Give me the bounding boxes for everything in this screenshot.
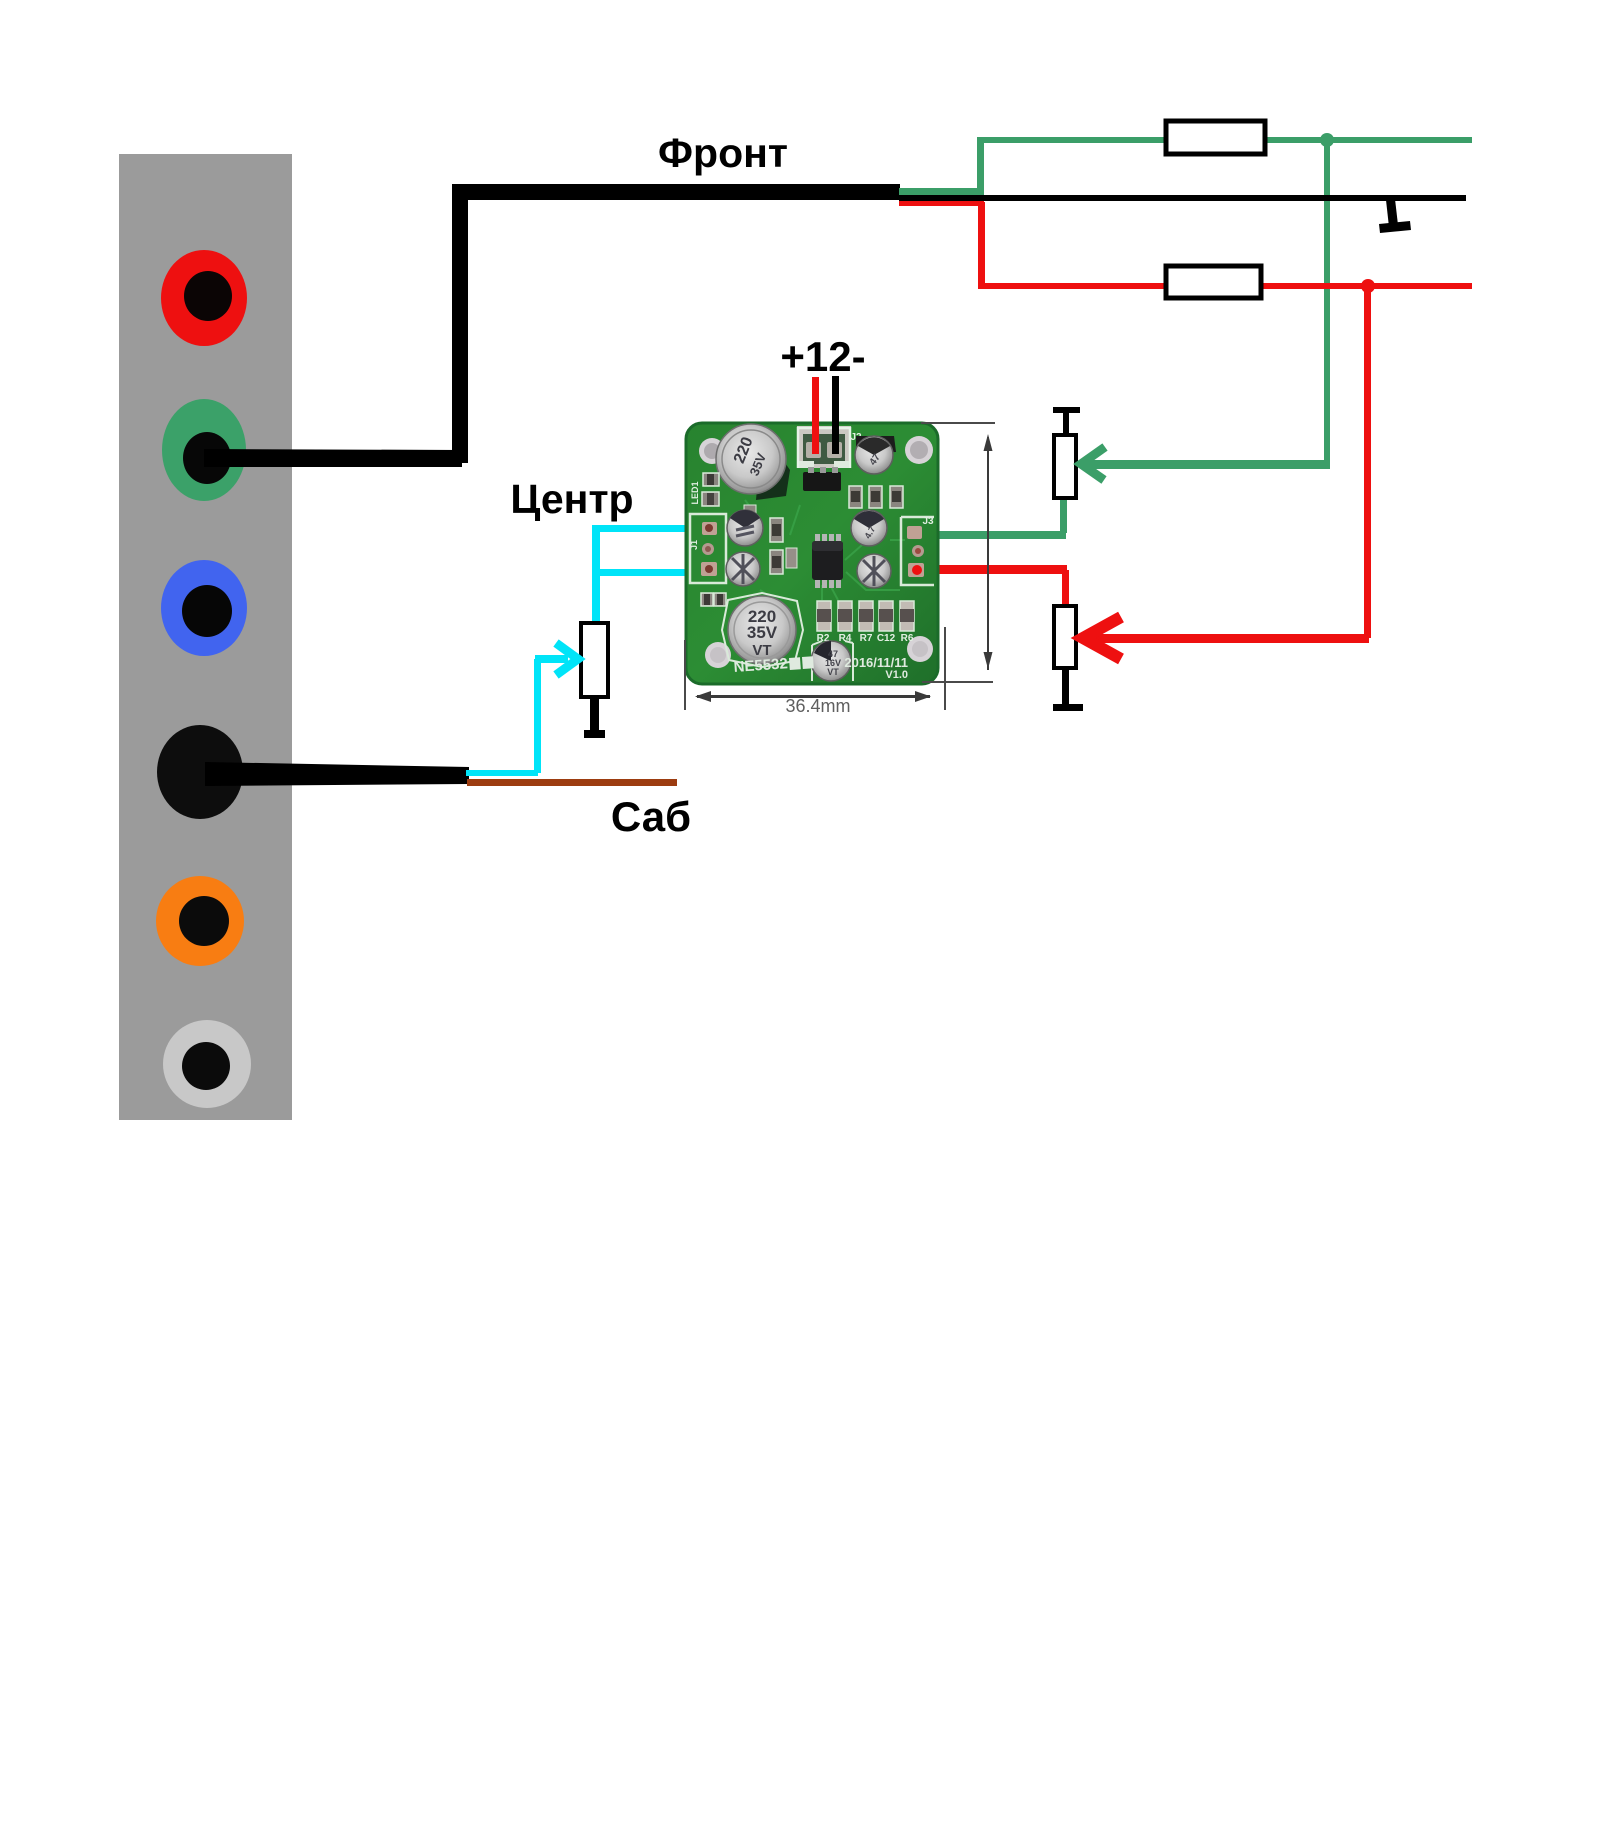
SMD R near C3: [744, 505, 797, 574]
capacitor C2: [727, 510, 763, 546]
ground symbol on black line: [1379, 199, 1411, 233]
jack red (line-in/mic): [161, 250, 247, 346]
op-amp U1 NE5532 SOIC-8: [812, 534, 843, 588]
wire: thick black rear cable from black jack: [205, 762, 469, 786]
LED1: [690, 473, 719, 506]
potentiometer RV2 (red/rear level): [1053, 570, 1083, 711]
wire: green vertical drop to pot RV1: [1324, 140, 1330, 469]
node: green junction dot: [1320, 133, 1334, 147]
label Саб: [611, 793, 691, 840]
mounting hole bottom-left: [705, 642, 731, 668]
wire: green short link at end of front cable: [899, 139, 984, 195]
wire: cyan vertical from black rear cable: [466, 659, 541, 776]
wire: cyan wiper arrow into RV3: [535, 643, 578, 675]
mounting hole top-right: [905, 436, 933, 464]
wire: red lower rail: [980, 283, 1472, 289]
label +12-: [780, 333, 865, 380]
svg-text:VT: VT: [827, 667, 839, 677]
capacitor C12: [877, 601, 896, 644]
svg-text:J1: J1: [689, 540, 699, 550]
svg-text:2016/11/11: 2016/11/11: [844, 655, 908, 670]
wire: black supply return lead to J2: [832, 376, 839, 454]
wire: red +12V supply lead to J2: [812, 377, 819, 454]
audio panel bracket: [119, 154, 292, 1120]
svg-text:J3: J3: [922, 516, 934, 527]
resistor R7: [859, 601, 873, 644]
wire: cyan center channel to J1 pad1: [593, 525, 710, 532]
svg-text:+12-: +12-: [780, 333, 865, 380]
wire: green top rail: [977, 137, 1472, 143]
connector J1 input header: [689, 514, 726, 583]
svg-text:C12: C12: [877, 633, 896, 644]
potentiometer RV3 (center/sub level): [581, 623, 608, 738]
svg-text:R7: R7: [860, 633, 873, 644]
capacitor C5: [851, 510, 887, 546]
resistor R6: [900, 601, 914, 644]
wire: cyan center channel to J1 pad3: [593, 569, 709, 576]
resistor R1 (green channel): [1166, 121, 1265, 154]
PCB preamp module NE5532: [686, 423, 938, 684]
silkscreen date label: [844, 655, 908, 681]
dimension extension lines bottom: [684, 627, 946, 710]
capacitor C6 220uF 35V bottom: [722, 593, 803, 667]
SMD pair bottom-left: [701, 593, 726, 606]
potentiometer RV1 (green/front level): [1053, 407, 1080, 533]
resistor R2: [817, 601, 831, 644]
jack blue (line in): [161, 560, 247, 656]
mounting hole top-left: [699, 438, 725, 464]
connector J2 power header: [797, 426, 862, 468]
SMD cluster top-right: [849, 486, 903, 508]
wire: red link J3 pad3 to RV2 top: [916, 565, 1067, 574]
wire: green wiper arrow into RV1: [1081, 447, 1327, 480]
capacitor C1 220uF 35V top-left: [716, 424, 790, 500]
capacitor C7 top-right: [855, 436, 896, 474]
voltage regulator U2: [803, 467, 841, 491]
silkscreen NE5532 label: [733, 655, 814, 676]
capacitor C3: [726, 552, 760, 586]
svg-text:V1.0: V1.0: [885, 669, 908, 681]
svg-text:Фронт: Фронт: [658, 130, 788, 176]
node: red junction dot: [1361, 279, 1375, 293]
svg-text:Саб: Саб: [611, 793, 691, 840]
dimension extension line top right: [921, 422, 995, 424]
dimension extension line bottom right: [922, 681, 993, 683]
mounting hole bottom-right: [907, 636, 933, 662]
wire: cyan vertical to pot RV3 top: [592, 525, 600, 622]
jack gray (side out): [163, 1020, 251, 1108]
capacitor C9 47uF bottom: [811, 641, 853, 681]
resistor R2 (red channel): [1166, 266, 1261, 298]
svg-text:35V: 35V: [747, 623, 778, 642]
dimension vertical arrow (board height): [984, 434, 993, 670]
wire: red vertical drop to pot RV2: [1364, 286, 1371, 638]
wire: red wiper arrow into RV2: [1083, 617, 1369, 659]
wire: green link J3 pad1 to RV1 bottom: [913, 531, 1066, 539]
wire: red short link at end of front cable: [899, 199, 985, 289]
dimension horizontal arrow 36.4mm: [695, 691, 931, 702]
resistor R4: [838, 601, 852, 644]
label Фронт: [658, 130, 788, 176]
label Центр: [510, 476, 633, 522]
svg-text:36.4mm: 36.4mm: [785, 696, 850, 716]
jack black (rear out): [157, 725, 243, 819]
jack green (front out): [162, 399, 246, 501]
svg-text:LED1: LED1: [690, 481, 700, 504]
PCB traces: [745, 490, 905, 610]
jack orange (center/sub out): [156, 876, 244, 966]
label 36.4mm: [785, 696, 850, 716]
wire: thin black signal ground line: [899, 195, 1466, 201]
capacitor C8: [857, 554, 891, 588]
svg-text:R6: R6: [901, 633, 914, 644]
PCB board outline: [686, 423, 938, 684]
wire: thick black front cable from green jack: [204, 184, 900, 467]
wire: brown sub lead: [467, 779, 677, 786]
svg-text:Центр: Центр: [510, 476, 633, 522]
connector J3 output header: [901, 516, 934, 585]
